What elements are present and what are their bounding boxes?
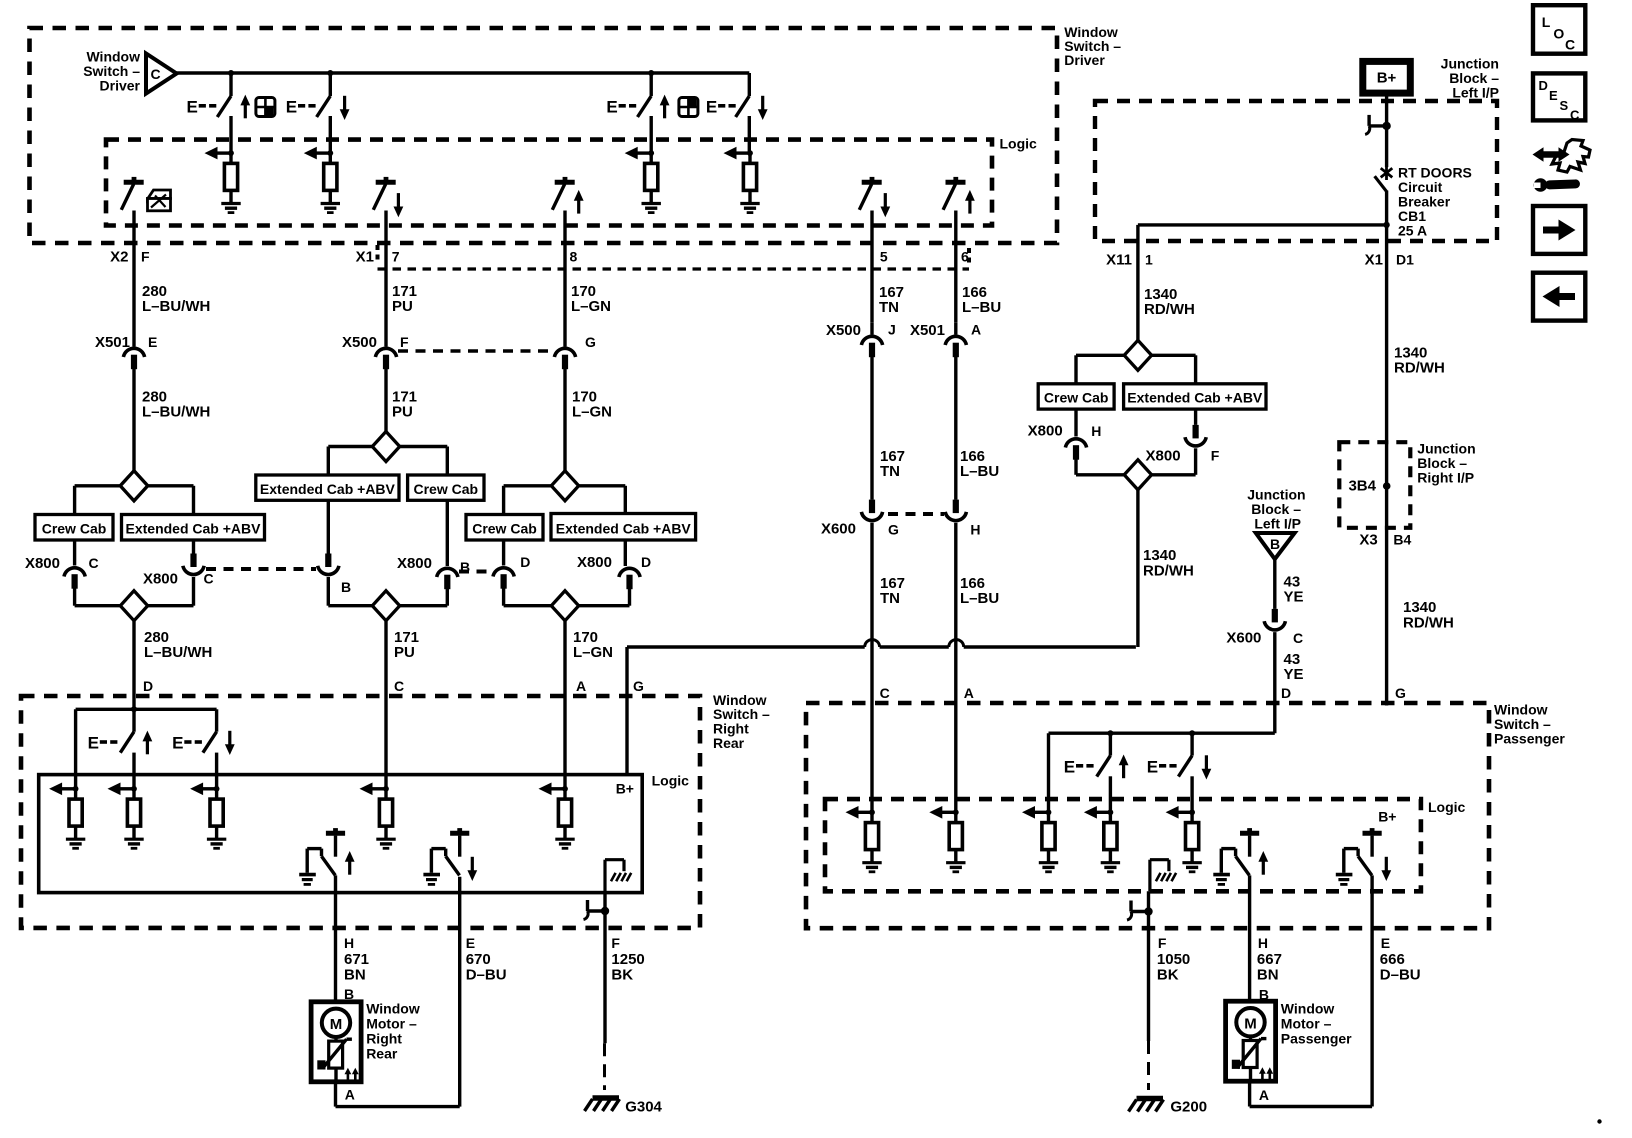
svg-text:X501: X501	[95, 334, 130, 351]
svg-text:D: D	[1539, 78, 1548, 93]
power feed B+ (battery)	[1363, 61, 1411, 93]
wire motor A loop to 670	[336, 1082, 460, 1107]
label E (right rear up)	[88, 734, 118, 753]
connector X501 pin A	[910, 322, 981, 358]
logic box (right rear, solid)	[39, 775, 643, 893]
svg-text:X800: X800	[1028, 423, 1063, 440]
svg-text:X500: X500	[826, 322, 861, 339]
svg-text:A: A	[971, 322, 981, 338]
svg-text:TN: TN	[879, 299, 899, 316]
switch contact pin8 window-up	[552, 177, 574, 210]
icon hotspot wrench	[1533, 140, 1591, 192]
svg-text:G: G	[1395, 685, 1406, 701]
wire 280 to pin D right-rear	[132, 621, 135, 732]
svg-text:3B4: 3B4	[1348, 478, 1376, 495]
resistor R7 with ground (right rear)	[190, 783, 226, 849]
resistor R9 with ground (right rear)	[539, 783, 575, 849]
label Logic (passenger)	[1428, 799, 1466, 815]
svg-text:E: E	[148, 334, 157, 350]
wire branch left to Extended Cab (171)	[328, 447, 372, 476]
label Window Switch - Right Rear	[713, 692, 770, 751]
window icon (passenger window)	[679, 98, 698, 117]
svg-text:671: 671	[344, 951, 369, 968]
resistor R5 with ground (right rear)	[49, 783, 85, 849]
svg-text:B: B	[341, 579, 351, 595]
arrow down (pin7 contact)	[394, 193, 404, 217]
option box Crew Cab (170)	[466, 515, 543, 541]
wire motor feed H 671 BN	[334, 875, 337, 1001]
label E (right rear down)	[172, 734, 202, 753]
pin label D (passenger switch)	[1281, 685, 1291, 701]
icon button LOC	[1533, 5, 1585, 54]
label E (S1 coil)	[187, 98, 217, 117]
resistor R12 with ground (passenger)	[1022, 806, 1058, 872]
svg-text:B: B	[1270, 536, 1280, 552]
switch down (passenger internal)	[1178, 733, 1192, 812]
wire label E 670 D-BU	[466, 935, 507, 984]
wire B+ into junction block	[1385, 93, 1388, 167]
option box Extended Cab +ABV (171)	[256, 475, 399, 500]
connector X800 pin C (ext)	[183, 554, 214, 587]
svg-text:Crew Cab: Crew Cab	[42, 521, 107, 537]
wire below X800 F	[1152, 448, 1196, 475]
svg-text:L–BU: L–BU	[962, 299, 1001, 316]
arrow up (motor up drive)	[345, 851, 355, 875]
pin label G (right rear switch)	[633, 678, 644, 694]
svg-text:RD/WH: RD/WH	[1403, 615, 1454, 632]
svg-text:H: H	[970, 522, 980, 538]
svg-text:Rear: Rear	[713, 735, 745, 751]
wire Crew Cab to X800 B	[446, 500, 449, 566]
svg-text:8: 8	[570, 249, 578, 265]
wire below X800 D crew	[504, 589, 552, 606]
svg-text:C: C	[1293, 630, 1303, 646]
stray mark	[1597, 1119, 1601, 1123]
splice diamond (280 split)	[120, 471, 147, 501]
resistor R8 with ground (right rear)	[360, 783, 396, 849]
pin label C (passenger switch)	[880, 685, 890, 701]
wire label 170 L-GN (lower)	[573, 629, 613, 661]
svg-text:Left I/P: Left I/P	[1254, 516, 1301, 532]
svg-text:X800: X800	[143, 571, 178, 588]
svg-text:S: S	[1560, 98, 1569, 113]
svg-text:Passenger: Passenger	[1281, 1031, 1352, 1047]
logic box (driver, dashed)	[106, 140, 992, 226]
svg-text:X600: X600	[821, 521, 856, 538]
wire below X800 B	[328, 577, 372, 606]
component box Window Switch - Right Rear (dashed)	[21, 696, 700, 928]
svg-text:PU: PU	[392, 404, 413, 421]
label Junction Block - Right I/P	[1417, 441, 1475, 486]
wire label 1340 RD/WH (mid)	[1143, 547, 1194, 580]
wire 1340 from X1 pin D1	[1385, 241, 1388, 706]
svg-text:A: A	[1259, 1087, 1269, 1103]
component box Window Switch - Driver (dashed)	[30, 28, 1058, 243]
icon button previous page	[1533, 273, 1585, 321]
svg-text:BN: BN	[344, 967, 366, 984]
splice diamond (170 split)	[551, 471, 578, 501]
svg-text:Driver: Driver	[1064, 52, 1105, 68]
switch contact pin6 window-up	[943, 177, 965, 210]
option box Crew Cab (171)	[408, 475, 484, 500]
wire label 171 PU (lower)	[394, 629, 419, 661]
label E (S2 coil)	[286, 98, 316, 117]
motor M Window Motor - Passenger	[1226, 1001, 1276, 1081]
svg-text:B4: B4	[1393, 532, 1411, 548]
svg-text:E: E	[172, 734, 183, 753]
pin label A (motor right rear)	[345, 1087, 355, 1103]
arrow up (passenger motor up)	[1258, 851, 1268, 875]
motor drive switch down with ground (right rear)	[423, 828, 469, 884]
pin label 6	[961, 249, 969, 265]
svg-text:E: E	[1064, 758, 1075, 777]
arrow down (pin5 contact)	[880, 193, 890, 217]
svg-text:1050: 1050	[1157, 951, 1190, 968]
pin label X11 | 1	[1106, 252, 1153, 269]
svg-text:C: C	[880, 685, 890, 701]
wire label 170 L-GN (upper)	[571, 283, 611, 315]
junction node 3B4	[1348, 478, 1390, 495]
pin label A (right rear switch)	[576, 678, 586, 694]
label Window Switch - Driver (outside box)	[1064, 24, 1121, 68]
svg-text:E: E	[466, 935, 475, 951]
svg-text:Extended Cab +ABV: Extended Cab +ABV	[260, 481, 396, 497]
svg-text:C: C	[151, 66, 161, 82]
resistor R4 with ground (driver logic)	[724, 147, 760, 213]
svg-text:1340: 1340	[1143, 547, 1176, 564]
wire pin8 down	[563, 211, 566, 347]
svg-text:L–BU/WH: L–BU/WH	[142, 298, 210, 315]
svg-text:YE: YE	[1284, 666, 1304, 683]
svg-text:BK: BK	[611, 967, 633, 984]
connector X800 pin H	[1028, 423, 1102, 460]
svg-text:RD/WH: RD/WH	[1143, 563, 1194, 580]
svg-text:E: E	[1549, 88, 1558, 103]
wire Crew Cab to X800 D	[502, 540, 505, 566]
splice diamond (171 split)	[372, 418, 399, 462]
pin label C (right rear switch)	[394, 678, 404, 694]
svg-text:F: F	[1211, 448, 1220, 464]
label Junction Block - Left I/P (top)	[1441, 56, 1500, 101]
svg-text:X1: X1	[356, 249, 374, 266]
wire 171 to pin C right-rear	[384, 621, 387, 789]
svg-text:C: C	[1570, 108, 1580, 123]
connector X500 pin F	[342, 334, 409, 369]
wire Ext Cab to X800 F	[1194, 409, 1197, 425]
wire below X800 B crew	[400, 589, 448, 606]
svg-text:Extended Cab +ABV: Extended Cab +ABV	[556, 521, 692, 537]
wire label 280 L-BU/WH (mid)	[142, 389, 210, 421]
junction node at switch S3	[648, 70, 654, 76]
wire pin7 down	[384, 211, 387, 347]
svg-text:L–BU: L–BU	[960, 463, 999, 480]
svg-text:A: A	[345, 1087, 355, 1103]
svg-text:L–BU: L–BU	[960, 590, 999, 607]
wire branch right to Extended Cab (1340)	[1152, 355, 1196, 384]
icon button DESC	[1533, 73, 1585, 122]
feed rail wire (passenger)	[1049, 733, 1275, 812]
svg-text:Logic: Logic	[652, 773, 690, 789]
wire label 166 L-BU (upper)	[962, 284, 1001, 316]
window icon (driver window, tilted)	[148, 190, 171, 211]
pin label A (passenger switch)	[964, 685, 974, 701]
logic box (passenger, dashed)	[825, 799, 1421, 891]
svg-text:Rear: Rear	[366, 1046, 398, 1062]
svg-text:L–GN: L–GN	[572, 404, 612, 421]
svg-text:RD/WH: RD/WH	[1144, 301, 1195, 318]
wire Crew Cab to X800 H	[1074, 409, 1077, 436]
svg-text:X500: X500	[342, 334, 377, 351]
connector X501 pin E	[95, 334, 157, 369]
wire label 167 TN (lower)	[880, 575, 905, 607]
wire below X800 H	[1076, 460, 1124, 475]
option box Extended Cab +ABV (170)	[551, 514, 696, 541]
label RT DOORS Circuit Breaker CB1 25 A	[1398, 165, 1472, 239]
wire Extended Cab to X800 C	[192, 540, 195, 554]
resistor R10 with ground (passenger)	[846, 806, 882, 872]
svg-text:E: E	[1381, 935, 1390, 951]
svg-text:D1: D1	[1396, 252, 1414, 268]
svg-text:7: 7	[392, 249, 400, 265]
junction node CB1 output	[1383, 222, 1389, 228]
option box Extended Cab +ABV (280)	[122, 515, 265, 541]
wire 167 below X500 J	[870, 357, 873, 500]
svg-text:Crew Cab: Crew Cab	[472, 521, 537, 537]
B+ internal ground hook (passenger)	[1150, 860, 1176, 892]
svg-text:Crew Cab: Crew Cab	[414, 481, 479, 497]
wire 170 below X500	[563, 369, 566, 471]
splice connector on B+ feed	[1365, 115, 1391, 134]
splice diamond (1340 split)	[1124, 340, 1151, 370]
svg-text:F: F	[611, 935, 620, 951]
svg-text:E: E	[187, 98, 198, 117]
svg-text:C: C	[204, 571, 214, 587]
svg-text:F: F	[400, 334, 409, 350]
wire label 166 L-BU (lower)	[960, 575, 999, 607]
svg-text:L–GN: L–GN	[573, 644, 613, 661]
wire CB1 output down to X1 D1	[1385, 225, 1388, 241]
icon button next page	[1533, 206, 1585, 254]
connector X500 pin J	[826, 322, 896, 358]
svg-text:Right: Right	[366, 1031, 402, 1047]
svg-text:D: D	[520, 554, 530, 570]
wire below X800 C	[75, 589, 121, 606]
arrow down (motor down drive)	[467, 857, 477, 881]
wire X2-F down from driver switch	[132, 211, 135, 347]
connector X600 pin G	[821, 500, 899, 538]
switch up (right rear internal)	[120, 732, 134, 789]
arrow up (right rear)	[143, 731, 153, 755]
wire label 1340 RD/WH (X11)	[1144, 286, 1195, 318]
svg-text:D: D	[641, 554, 651, 570]
wire pin6 down	[954, 211, 957, 323]
switch up (passenger internal)	[1097, 733, 1111, 812]
svg-text:D–BU: D–BU	[1380, 967, 1421, 984]
svg-text:C: C	[1565, 37, 1575, 53]
svg-text:X1: X1	[1365, 252, 1383, 269]
wire label 280 L-BU/WH (upper)	[142, 283, 210, 315]
connector X800 pin C (crew)	[25, 555, 99, 589]
motor drive switch up with ground (passenger)	[1213, 828, 1259, 884]
wire 1050 BK dashed to ground	[1147, 1041, 1150, 1090]
svg-text:L: L	[1542, 14, 1551, 30]
wire label 171 PU (mid)	[392, 389, 417, 421]
wire pin6 to X501 A	[954, 323, 957, 335]
splice connector below passenger box	[1127, 891, 1153, 1041]
svg-text:BN: BN	[1257, 967, 1279, 984]
motor drive switch down with ground (passenger)	[1336, 828, 1382, 884]
arrow up (S3)	[660, 95, 670, 119]
wire branch left to Crew Cab (170)	[504, 486, 552, 515]
wire label H 671 BN / B	[344, 935, 369, 1002]
connector X800 pin F	[1146, 425, 1220, 465]
svg-text:D: D	[1281, 685, 1291, 701]
connector mate dashed link C-B	[206, 567, 316, 571]
svg-text:X800: X800	[25, 555, 60, 572]
wire 166 below X501 A	[954, 357, 957, 500]
svg-text:BK: BK	[1157, 967, 1179, 984]
svg-text:PU: PU	[392, 298, 413, 315]
motor M Window Motor - Right Rear	[311, 1002, 361, 1082]
ground G304	[585, 1098, 663, 1116]
svg-text:Motor –: Motor –	[1281, 1016, 1332, 1032]
option box Extended Cab +ABV (1340)	[1124, 384, 1266, 409]
svg-text:RD/WH: RD/WH	[1394, 360, 1445, 377]
connector X1 boundary (dashed)	[378, 245, 970, 269]
svg-text:TN: TN	[880, 463, 900, 480]
svg-text:G200: G200	[1170, 1099, 1207, 1116]
svg-text:X2: X2	[110, 249, 128, 266]
wire label 166 L-BU (mid)	[960, 448, 999, 480]
svg-text:Extended Cab +ABV: Extended Cab +ABV	[126, 521, 262, 537]
svg-text:1340: 1340	[1403, 599, 1436, 616]
splice diamond (171 merge)	[372, 591, 399, 621]
svg-text:Right I/P: Right I/P	[1417, 470, 1474, 486]
svg-text:Left I/P: Left I/P	[1452, 85, 1499, 101]
wire 166 to pin A passenger	[954, 523, 957, 813]
svg-text:Driver: Driver	[100, 78, 141, 94]
svg-text:1: 1	[1145, 252, 1153, 268]
resistor R11 with ground (passenger)	[929, 806, 965, 872]
pin label X2 | F	[110, 249, 150, 266]
junction node sw-down feed (passenger)	[1189, 730, 1195, 736]
connector triangle C (Window Switch - Driver output)	[146, 54, 177, 94]
resistor R1 with ground (driver logic)	[205, 147, 241, 213]
pin label X1 | D1	[1365, 252, 1414, 269]
wire 1340 from X11 pin 1	[1136, 241, 1139, 341]
svg-text:YE: YE	[1284, 589, 1304, 606]
svg-text:D–BU: D–BU	[466, 967, 507, 984]
svg-text:M: M	[330, 1016, 343, 1033]
wire 43 YE to pin D passenger	[1273, 632, 1276, 733]
component box Junction Block - Left I/P (dashed)	[1095, 101, 1497, 241]
feed rail wire (right rear)	[76, 709, 217, 789]
wire motor feed H 667 BN (passenger)	[1248, 875, 1251, 1001]
wire CB1 output to X11	[1138, 225, 1387, 241]
label Window Switch - Passenger	[1494, 702, 1565, 747]
wire label F 1050 BK	[1157, 935, 1190, 984]
wire Ext Cab to X800 D	[624, 540, 627, 566]
resistor R2 with ground (driver logic)	[304, 147, 340, 213]
wire label H 667 BN / B (passenger)	[1257, 935, 1282, 1003]
svg-text:C: C	[89, 555, 99, 571]
svg-text:Window: Window	[366, 1001, 420, 1017]
svg-text:F: F	[141, 249, 150, 265]
option box Crew Cab (280)	[35, 515, 113, 541]
label E (S3 coil)	[606, 98, 636, 117]
wire label 167 TN (mid)	[880, 448, 905, 480]
splice diamond (170 merge)	[551, 591, 578, 621]
svg-text:667: 667	[1257, 951, 1282, 968]
wire 170 to pin A right-rear	[563, 621, 566, 789]
wire bus from triangle C	[177, 71, 750, 74]
switch S4 window-down (passenger ctrl)	[736, 96, 750, 153]
switch S3 window-up (passenger ctrl)	[638, 73, 652, 153]
svg-text:J: J	[888, 322, 896, 338]
svg-text:B+: B+	[616, 781, 634, 797]
svg-text:A: A	[576, 678, 586, 694]
svg-text:E: E	[606, 98, 617, 117]
pin label D (right rear switch)	[143, 678, 153, 694]
wire label E 666 D-BU (passenger)	[1380, 935, 1421, 984]
svg-text:Extended Cab +ABV: Extended Cab +ABV	[1127, 390, 1263, 406]
circuit breaker CB1 RT DOORS 25A	[1375, 166, 1393, 225]
svg-text:X800: X800	[577, 554, 612, 571]
svg-text:H: H	[344, 935, 354, 951]
switch S1 window-up (driver)	[217, 73, 231, 153]
component box Window Switch - Passenger (dashed)	[806, 703, 1489, 928]
svg-text:B+: B+	[1377, 70, 1397, 87]
svg-text:D: D	[143, 678, 153, 694]
svg-text:H: H	[1258, 935, 1268, 951]
wire label 170 L-GN (mid)	[572, 389, 612, 421]
junction node at switch S2	[327, 70, 333, 76]
label Window Motor - Right Rear	[366, 1001, 420, 1062]
arrow up (S1)	[240, 95, 250, 119]
window icon (front window)	[256, 98, 275, 117]
wire 1250 BK dashed to ground	[603, 1043, 606, 1090]
wire motor return E 670 D-BU	[458, 877, 461, 1107]
svg-text:670: 670	[466, 951, 491, 968]
svg-text:PU: PU	[394, 644, 415, 661]
arrow down (right rear)	[225, 731, 235, 755]
pin label A (motor passenger)	[1259, 1087, 1269, 1103]
wire below X800 D ext	[579, 589, 630, 606]
switch contact pin5 window-down	[859, 177, 881, 210]
wire branch right to Extended Cab (280)	[148, 486, 194, 515]
wire label F 1250 BK	[611, 935, 644, 984]
svg-text:X3: X3	[1359, 532, 1377, 549]
wire 280 below X501	[132, 369, 135, 471]
svg-text:X800: X800	[1146, 448, 1181, 465]
motor drive switch up with ground (right rear)	[299, 828, 345, 884]
svg-text:L–GN: L–GN	[571, 298, 611, 315]
svg-text:L–BU/WH: L–BU/WH	[142, 404, 210, 421]
wire label 43 YE (lower)	[1284, 651, 1304, 683]
svg-text:5: 5	[880, 249, 888, 265]
splice connector below right-rear box	[584, 893, 610, 1044]
svg-text:A: A	[964, 685, 974, 701]
svg-text:M: M	[1244, 1016, 1257, 1033]
wire 167 to pin C passenger	[870, 523, 873, 813]
pin label G (passenger switch)	[1395, 685, 1406, 701]
arrow down (passenger motor down)	[1381, 857, 1391, 881]
svg-text:G: G	[888, 522, 899, 538]
switch S2 window-down (driver)	[317, 73, 331, 153]
wire label 1340 RD/WH (upper right)	[1394, 345, 1445, 377]
switch contact pin7 window-down	[373, 177, 395, 210]
switch down (right rear internal)	[203, 732, 217, 789]
